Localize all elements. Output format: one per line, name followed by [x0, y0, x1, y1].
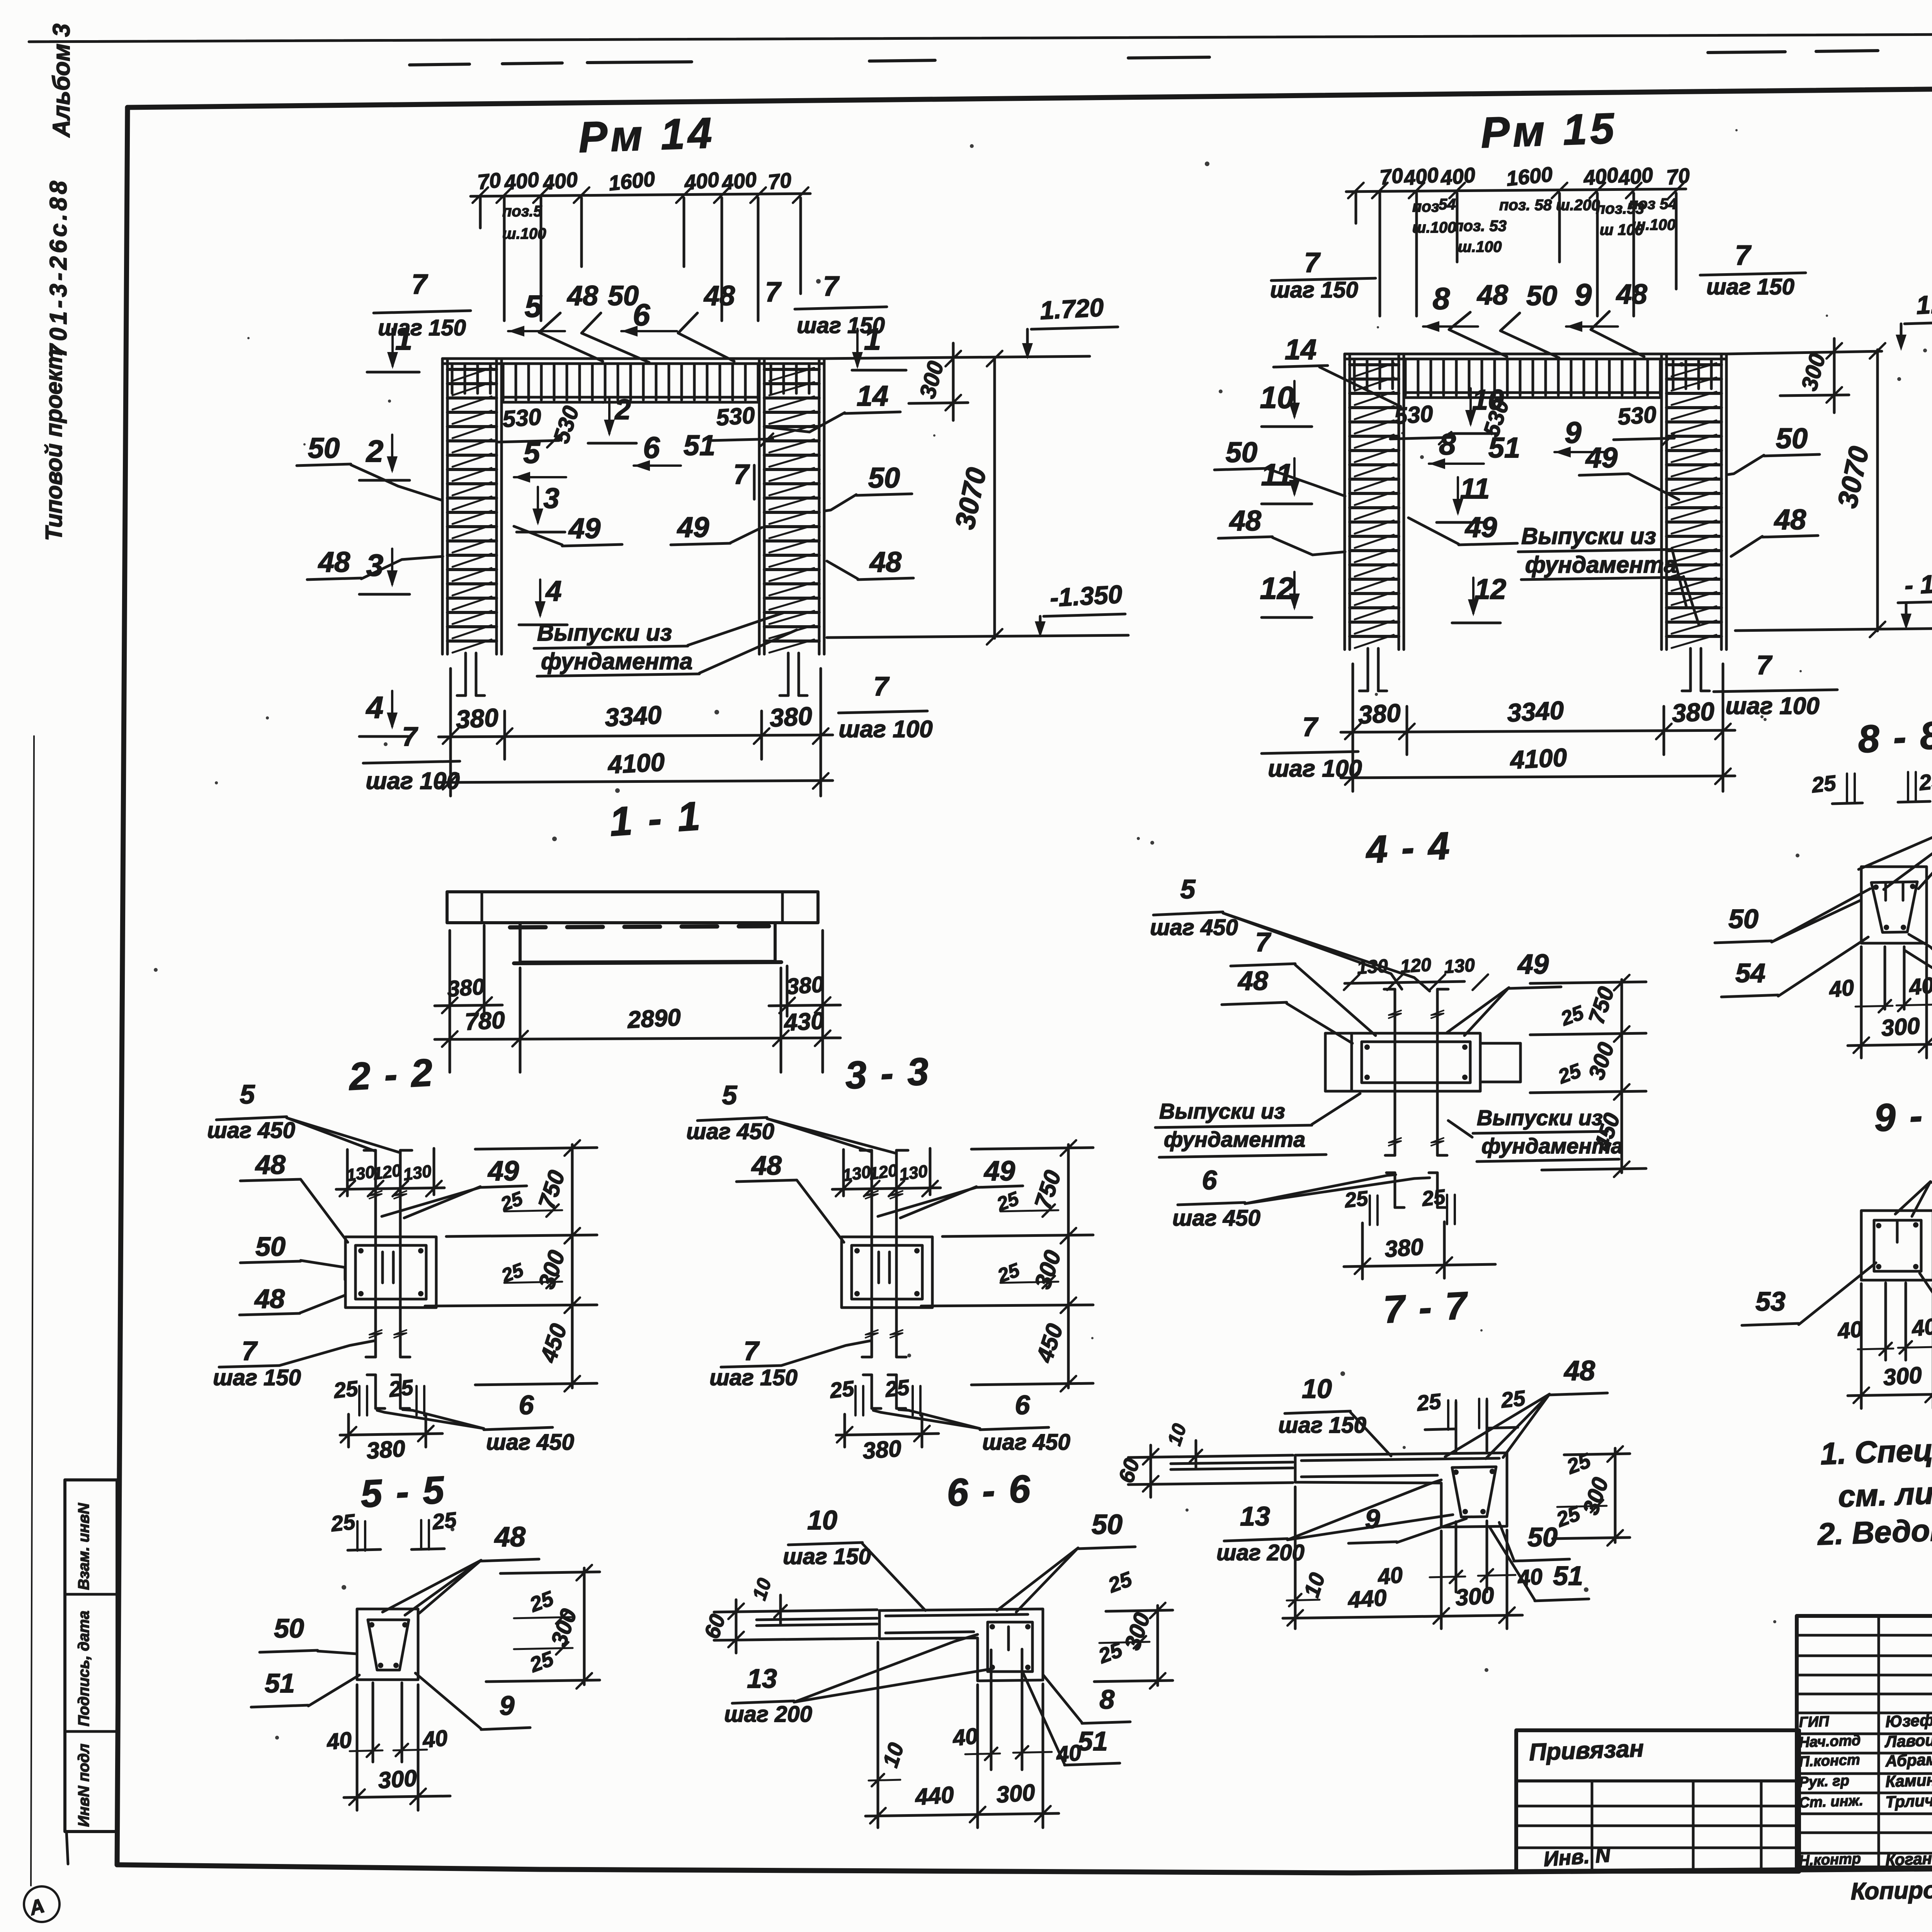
svg-text:3 - 3: 3 - 3	[844, 1049, 931, 1097]
svg-text:7: 7	[823, 271, 840, 302]
svg-text:5 - 5: 5 - 5	[359, 1468, 447, 1515]
svg-text:49: 49	[568, 512, 600, 544]
svg-text:1.720: 1.720	[1039, 293, 1104, 325]
svg-text:50: 50	[1527, 1522, 1558, 1552]
svg-text:130: 130	[1443, 955, 1476, 977]
svg-text:750: 750	[533, 1167, 570, 1212]
svg-text:300: 300	[377, 1765, 418, 1794]
svg-text:Н.контр: Н.контр	[1799, 1850, 1861, 1869]
svg-text:300: 300	[533, 1247, 570, 1292]
svg-text:50: 50	[868, 462, 900, 494]
svg-text:шаг 100: шаг 100	[1725, 693, 1819, 719]
svg-text:7: 7	[1735, 240, 1752, 271]
section 5-5 right dims 25 300 25	[583, 1568, 586, 1685]
svg-text:7 - 7: 7 - 7	[1382, 1284, 1469, 1331]
svg-text:фундамента: фундамента	[1164, 1127, 1305, 1151]
svg-text:шаг 450: шаг 450	[982, 1430, 1070, 1455]
svg-text:300: 300	[1029, 1247, 1066, 1292]
svg-text:8 - 8: 8 - 8	[1857, 713, 1932, 761]
svg-text:Рм 14: Рм 14	[578, 109, 716, 162]
svg-text:300: 300	[995, 1779, 1036, 1808]
svg-text:Выпуски из: Выпуски из	[537, 620, 672, 646]
svg-text:51: 51	[265, 1668, 295, 1698]
svg-text:6 - 6: 6 - 6	[946, 1467, 1033, 1514]
section 3 - 3 box outline	[842, 1237, 932, 1308]
frame Рм 15 bottom extension lines	[1352, 664, 1354, 791]
section 7-7 slab and beam outline	[1295, 1453, 1507, 1527]
svg-text:Взам. инвN: Взам. инвN	[75, 1503, 92, 1590]
svg-text:380: 380	[366, 1435, 406, 1464]
svg-text:поз.5: поз.5	[502, 203, 542, 220]
svg-text:2: 2	[366, 434, 384, 468]
svg-text:300: 300	[1120, 1610, 1155, 1653]
frame Рм 14 beam vertical stirrups	[451, 364, 454, 393]
svg-text:3070: 3070	[1832, 444, 1875, 510]
svg-text:400: 400	[541, 168, 579, 195]
svg-text:ИнвN подл: ИнвN подл	[75, 1743, 92, 1827]
svg-text:25: 25	[1810, 770, 1837, 797]
svg-text:300: 300	[1882, 1362, 1923, 1391]
svg-text:54: 54	[1735, 958, 1765, 988]
svg-text:48: 48	[318, 546, 350, 578]
svg-text:380: 380	[862, 1435, 902, 1464]
svg-text:51: 51	[684, 429, 715, 461]
svg-text:530: 530	[715, 402, 756, 431]
section 3 - 3 inner stirrup dashes	[878, 1252, 880, 1283]
svg-text:ш.100: ш.100	[1412, 219, 1456, 236]
svg-text:поз. 53: поз. 53	[1454, 218, 1507, 235]
svg-text:7: 7	[1255, 927, 1272, 957]
section 1-1 dim 380 right	[786, 966, 789, 1016]
section 8-8 top ticks 25 25	[1846, 774, 1848, 803]
svg-text:380: 380	[1357, 698, 1401, 729]
svg-text:5: 5	[240, 1079, 255, 1109]
svg-text:Абрамовский: Абрамовский	[1885, 1748, 1932, 1770]
frame Рм 14 left side section marks	[391, 435, 393, 470]
svg-text:3070: 3070	[949, 465, 993, 532]
svg-text:13: 13	[1240, 1501, 1270, 1531]
section 7-7 beam trapezoid rebar	[1452, 1467, 1496, 1517]
frame Рм 15 left column outline	[1344, 354, 1346, 650]
svg-text:13: 13	[747, 1663, 777, 1694]
svg-text:50: 50	[255, 1231, 286, 1262]
svg-text:130: 130	[1356, 956, 1389, 978]
svg-text:530: 530	[1617, 401, 1657, 430]
svg-text:шаг 450: шаг 450	[1172, 1206, 1260, 1231]
привязан table	[1516, 1730, 1799, 1872]
svg-text:7: 7	[402, 721, 418, 752]
svg-text:50: 50	[274, 1613, 304, 1643]
svg-text:8: 8	[1439, 427, 1456, 461]
svg-text:48: 48	[1237, 966, 1268, 996]
svg-text:380: 380	[1384, 1234, 1424, 1262]
svg-text:ГИП: ГИП	[1799, 1713, 1830, 1731]
svg-text:440: 440	[1347, 1585, 1388, 1613]
svg-text:49: 49	[1464, 511, 1497, 543]
section 7-7 slab rebar stub lines	[1171, 1462, 1293, 1464]
section 4-4 right dimension chain 750 25 300 25 450	[1621, 980, 1623, 1173]
frame Рм 14 right column stirrup rungs	[764, 368, 819, 371]
svg-text:Нач.отд: Нач.отд	[1799, 1732, 1861, 1751]
svg-text:6: 6	[519, 1390, 534, 1420]
svg-text:50: 50	[1226, 436, 1257, 468]
svg-text:7: 7	[874, 671, 890, 701]
svg-text:7: 7	[733, 459, 750, 490]
svg-text:40: 40	[1836, 1316, 1864, 1344]
sheet outer top trim line	[29, 32, 1932, 42]
section 1-1 dashed axis	[510, 926, 769, 927]
svg-text:450: 450	[1031, 1321, 1068, 1366]
svg-text:Привязан: Привязан	[1529, 1735, 1644, 1766]
section 2 - 2 box outline	[345, 1237, 436, 1308]
svg-text:3: 3	[543, 482, 559, 514]
svg-text:48: 48	[1616, 279, 1647, 310]
svg-text:14: 14	[857, 380, 888, 412]
svg-text:130: 130	[402, 1162, 433, 1184]
section 3 - 3 bars with hooks	[871, 1150, 873, 1357]
svg-text:380: 380	[786, 972, 825, 1000]
section 6-6 slab and beam outline	[879, 1609, 1043, 1681]
svg-text:9 - 9: 9 - 9	[1873, 1092, 1932, 1139]
svg-text:130: 130	[841, 1162, 872, 1185]
svg-text:П.конст: П.конст	[1799, 1752, 1861, 1770]
section 3 - 3 dim 130 120 130	[832, 1188, 940, 1189]
svg-text:7: 7	[1303, 712, 1319, 742]
svg-text:25: 25	[1415, 1389, 1442, 1415]
svg-text:300: 300	[546, 1606, 582, 1649]
section 8-8 box	[1861, 867, 1927, 943]
svg-text:6: 6	[643, 430, 660, 464]
svg-text:2 - 2: 2 - 2	[347, 1051, 435, 1098]
svg-text:1. Спецификацию на монолитн: 1. Спецификацию на монолитные рамы Рм14,…	[1820, 1408, 1932, 1471]
svg-text:53: 53	[1755, 1286, 1786, 1316]
svg-text:1: 1	[395, 322, 413, 356]
svg-text:48: 48	[1229, 505, 1262, 537]
svg-text:49: 49	[1585, 442, 1617, 474]
svg-text:40: 40	[325, 1727, 353, 1755]
svg-text:поз 54: поз 54	[1629, 196, 1677, 213]
svg-text:10: 10	[1299, 1570, 1330, 1600]
svg-text:60: 60	[699, 1611, 730, 1642]
svg-text:400: 400	[1402, 163, 1440, 190]
frame Рм 14 top dimension line 70-400-400-1600-400-400-70	[471, 194, 810, 196]
svg-text:50: 50	[1092, 1509, 1122, 1540]
frame Рм15 beam top extension	[1726, 351, 1882, 354]
svg-text:25: 25	[332, 1376, 359, 1403]
svg-text:750: 750	[1584, 984, 1619, 1027]
frame Рм14 beam top extension to elevation	[824, 356, 1090, 359]
section 7-7 top ticks 25 25	[1455, 1402, 1458, 1452]
section 5-5 top ticks 25 25	[356, 1521, 359, 1551]
svg-text:400: 400	[1582, 163, 1619, 190]
frame Рм 15 right column stirrup rungs	[1667, 363, 1721, 366]
frame Рм 14 fundament outlet bars left	[464, 653, 467, 696]
svg-text:8: 8	[1433, 281, 1450, 316]
svg-text:40: 40	[1516, 1564, 1544, 1591]
left margin corner mark	[24, 1886, 60, 1922]
svg-text:5: 5	[722, 1080, 738, 1110]
svg-text:-1.350: -1.350	[1049, 580, 1123, 612]
svg-text:10: 10	[748, 1575, 776, 1602]
svg-text:380: 380	[455, 703, 499, 734]
frame Рм 15 fundament outlet bars right	[1689, 648, 1692, 691]
svg-text:40: 40	[1054, 1740, 1082, 1767]
section 2 - 2 inner stirrup dashes	[381, 1252, 384, 1283]
svg-text:1. 720: 1. 720	[1915, 287, 1932, 320]
svg-text:400: 400	[720, 168, 758, 195]
svg-text:400: 400	[503, 168, 540, 195]
svg-text:9: 9	[500, 1690, 515, 1721]
frame Рм 15 top dimension extension lines	[1379, 193, 1381, 316]
frame Рм14	[297, 109, 933, 796]
svg-text:400: 400	[1617, 163, 1654, 190]
crease dashes above border	[410, 64, 469, 65]
svg-text:ш.100: ш.100	[1458, 238, 1502, 255]
section 4-4 bars with hooks	[1394, 989, 1396, 1155]
svg-text:поз. 58 ш.200: поз. 58 ш.200	[1499, 197, 1600, 214]
section 1-1 beam top flange	[447, 892, 818, 923]
frame Рм 14 right column outline	[758, 359, 761, 654]
svg-text:48: 48	[751, 1150, 782, 1180]
svg-text:5: 5	[1180, 874, 1196, 904]
frame Рм 14 left column stirrup rungs	[447, 368, 497, 371]
svg-text:7: 7	[1304, 247, 1321, 278]
section 7-7 bottom dims 10 40 40 440 300	[1294, 1487, 1297, 1629]
svg-text:3: 3	[366, 548, 384, 582]
frame Рм 14 top beam outline	[442, 357, 824, 360]
svg-text:48: 48	[1563, 1355, 1595, 1386]
frame Рм 14 top dimension extension lines	[503, 198, 506, 321]
section 5-5 box with trapezoid rebar	[357, 1609, 418, 1680]
svg-text:7: 7	[765, 277, 782, 308]
svg-text:130: 130	[898, 1162, 929, 1184]
svg-text:6: 6	[1015, 1390, 1031, 1420]
svg-text:Инв. N: Инв. N	[1543, 1843, 1612, 1871]
section 2 - 2 bottom dims 25 25 380	[358, 1386, 361, 1415]
svg-text:Когановская: Когановская	[1885, 1847, 1932, 1869]
svg-text:48: 48	[494, 1522, 526, 1553]
frame Рм 15 dimension 380 3340 380	[1341, 730, 1735, 732]
svg-text:- 1. 350: - 1. 350	[1904, 566, 1932, 600]
svg-text:25: 25	[1105, 1567, 1135, 1597]
section 7-7 right dims 25 300 25	[1614, 1448, 1617, 1543]
svg-text:4100: 4100	[607, 747, 666, 779]
svg-text:54: 54	[1439, 196, 1456, 213]
svg-text:4 - 4: 4 - 4	[1364, 824, 1452, 871]
svg-text:60: 60	[1114, 1456, 1144, 1486]
frame Рм 15 top dimension line 70-400-400-1600-400-400-70	[1346, 189, 1686, 192]
svg-text:12: 12	[1260, 571, 1294, 605]
section 7-7 left slab dims 60 10	[1128, 1455, 1293, 1458]
svg-text:70: 70	[1379, 164, 1404, 189]
frame Рм14 height dim 3070	[993, 357, 996, 638]
frame Рм 15 right column outline	[1660, 354, 1663, 650]
svg-text:шаг 450: шаг 450	[207, 1118, 295, 1143]
svg-text:Каминская: Каминская	[1885, 1769, 1932, 1791]
svg-text:450: 450	[535, 1321, 572, 1366]
svg-text:7: 7	[412, 269, 428, 300]
svg-text:фундамента: фундамента	[1525, 552, 1677, 578]
svg-text:300: 300	[1578, 1475, 1614, 1518]
section 2 - 2 lower outlet hooks	[374, 1375, 377, 1408]
svg-text:25: 25	[1918, 768, 1932, 795]
svg-text:шаг 100: шаг 100	[366, 768, 459, 794]
svg-text:5: 5	[523, 435, 541, 469]
section 6-6 bottom dims 10 40 40 440 300	[877, 1642, 879, 1828]
svg-text:1 - 1: 1 - 1	[608, 793, 704, 845]
svg-text:поз: поз	[1412, 198, 1439, 215]
svg-text:49: 49	[487, 1156, 519, 1187]
svg-text:шаг 450: шаг 450	[686, 1119, 774, 1144]
section 3 - 3 lower outlet hooks	[871, 1375, 873, 1408]
svg-text:Юзефович: Юзефович	[1885, 1709, 1932, 1731]
svg-text:51: 51	[1078, 1726, 1108, 1756]
svg-text:Трличко: Трличко	[1885, 1791, 1932, 1811]
left margin attribute cells box	[65, 1480, 117, 1832]
frame Рм 14 bottom extension lines	[449, 668, 452, 796]
svg-text:25: 25	[1558, 1002, 1587, 1031]
svg-text:40: 40	[951, 1723, 979, 1751]
frame Рм15 level line -1.350	[1735, 628, 1932, 631]
frame Рм 15 fundament outlet bars left	[1367, 648, 1369, 691]
svg-text:300: 300	[915, 359, 949, 401]
svg-text:25: 25	[388, 1375, 415, 1401]
section 3 - 3 right dimension chain 750 25 300 25 450	[1067, 1145, 1070, 1388]
frame Рм15 height dim 3070	[1876, 350, 1879, 631]
svg-text:шаг 100: шаг 100	[1268, 755, 1362, 782]
svg-text:50: 50	[1776, 422, 1808, 454]
frame Рм14 beam height dim 300	[952, 343, 955, 420]
svg-text:300: 300	[1796, 351, 1830, 393]
section 9-9 bottom dims 40 40 300	[1884, 1283, 1887, 1360]
svg-text:6: 6	[1202, 1165, 1218, 1195]
section 3 - 3 bottom dims 25 25 380	[854, 1386, 857, 1415]
svg-text:шаг 200: шаг 200	[724, 1702, 812, 1727]
svg-text:шаг 450: шаг 450	[1150, 915, 1238, 940]
svg-text:4: 4	[366, 690, 384, 724]
section 6-6 slab rebar line	[886, 1614, 1028, 1616]
section 9-9 box	[1861, 1211, 1932, 1280]
svg-text:Выпуски из: Выпуски из	[1521, 523, 1656, 549]
frame Рм 15 beam vertical stirrups	[1353, 359, 1356, 389]
svg-text:5: 5	[525, 289, 543, 323]
svg-text:25: 25	[1420, 1185, 1447, 1211]
svg-text:25: 25	[884, 1375, 911, 1401]
section 6-6 left slab dims 60 10	[714, 1610, 877, 1612]
section 7-7 slab rebar line	[1301, 1458, 1499, 1461]
section 2 - 2 bars with hooks	[374, 1150, 377, 1357]
svg-text:530: 530	[549, 403, 584, 446]
frame Рм15	[1214, 104, 1837, 791]
svg-text:120: 120	[372, 1161, 403, 1184]
svg-text:шаг 100: шаг 100	[838, 716, 932, 743]
svg-text:25: 25	[526, 1647, 557, 1677]
svg-text:48: 48	[254, 1284, 285, 1314]
svg-text:300: 300	[1454, 1582, 1495, 1611]
svg-text:49: 49	[1517, 949, 1549, 980]
svg-text:Выпуски из: Выпуски из	[1477, 1105, 1603, 1130]
frame Рм 14 dimension 380 3340 380	[439, 735, 833, 737]
svg-text:51: 51	[1488, 432, 1520, 464]
svg-text:Выпуски из: Выпуски из	[1159, 1099, 1285, 1123]
section 3-3	[686, 1049, 1093, 1464]
svg-text:шаг 150: шаг 150	[378, 315, 466, 340]
frame Рм 15 left column stirrup rungs	[1350, 363, 1399, 366]
svg-text:25: 25	[1343, 1187, 1369, 1212]
signature table grid	[1797, 1616, 1932, 1867]
svg-text:Рук. гр: Рук. гр	[1799, 1772, 1850, 1791]
svg-text:25: 25	[1500, 1386, 1527, 1412]
section 5-5 bottom dims 40 40 300	[372, 1683, 374, 1762]
svg-text:50: 50	[308, 432, 340, 464]
svg-text:10: 10	[878, 1740, 908, 1770]
svg-text:380: 380	[769, 701, 813, 732]
svg-text:4: 4	[545, 575, 561, 607]
frame Рм 15 dimension 4100	[1341, 776, 1735, 778]
svg-text:750: 750	[1029, 1167, 1066, 1212]
svg-text:70: 70	[476, 168, 502, 194]
svg-text:48: 48	[703, 281, 735, 311]
svg-text:1600: 1600	[607, 167, 656, 195]
section 6-6 right dims 25 300 25	[1156, 1605, 1159, 1685]
svg-text:Копировала Миф- /Миркина/: Копировала Миф- /Миркина/	[1850, 1872, 1932, 1905]
svg-text:40: 40	[1827, 975, 1855, 1002]
frame Рм 14 fundament outlet bars right	[787, 653, 790, 696]
section 2 - 2 dim 130 120 130	[336, 1188, 444, 1189]
svg-text:4100: 4100	[1509, 743, 1568, 774]
svg-text:8: 8	[1100, 1684, 1115, 1714]
svg-text:780: 780	[464, 1007, 505, 1035]
svg-text:40: 40	[1907, 973, 1932, 1000]
svg-text:9: 9	[1365, 1504, 1380, 1534]
svg-text:25: 25	[828, 1376, 855, 1403]
svg-text:430: 430	[782, 1007, 825, 1036]
frame Рм15 beam height dim 300	[1833, 338, 1836, 413]
svg-text:ш.100: ш.100	[502, 225, 546, 242]
svg-text:10: 10	[1163, 1421, 1191, 1448]
svg-text:49: 49	[983, 1156, 1015, 1187]
svg-text:шаг 150: шаг 150	[783, 1544, 871, 1569]
svg-text:48: 48	[1774, 503, 1806, 536]
frame Рм 15 top beam outline	[1345, 353, 1726, 355]
svg-text:701-3-26с.88: 701-3-26с.88	[45, 178, 72, 357]
section 1-1 dim 780 2890 430	[519, 968, 522, 1072]
svg-text:9: 9	[1575, 277, 1592, 312]
svg-text:48: 48	[869, 546, 902, 578]
svg-text:Ст. инж.: Ст. инж.	[1799, 1793, 1864, 1811]
svg-text:50: 50	[1728, 904, 1759, 934]
section 4-4 dim 130 120 130	[1345, 981, 1464, 983]
frame Рм14 top step note underlines	[374, 311, 471, 313]
svg-text:300: 300	[1880, 1013, 1921, 1041]
frame Рм 14 dimension 4100	[439, 781, 833, 782]
svg-text:10: 10	[1302, 1374, 1332, 1404]
svg-text:3340: 3340	[604, 700, 663, 732]
svg-text:25: 25	[526, 1587, 557, 1617]
svg-text:1600: 1600	[1505, 163, 1554, 190]
svg-text:см. лист 121.: см. лист 121.	[1837, 1472, 1932, 1514]
section 4-4 box outline	[1352, 1033, 1480, 1091]
svg-text:400: 400	[683, 168, 720, 195]
svg-text:400: 400	[1439, 163, 1476, 190]
svg-text:120: 120	[1400, 954, 1432, 977]
svg-text:Альбом 3: Альбом 3	[48, 24, 75, 138]
svg-text:Типовой проект: Типовой проект	[41, 349, 67, 541]
svg-text:14: 14	[1285, 333, 1316, 366]
svg-text:Рм 15: Рм 15	[1480, 104, 1618, 157]
svg-text:9: 9	[1565, 415, 1582, 449]
svg-text:7: 7	[744, 1336, 760, 1366]
